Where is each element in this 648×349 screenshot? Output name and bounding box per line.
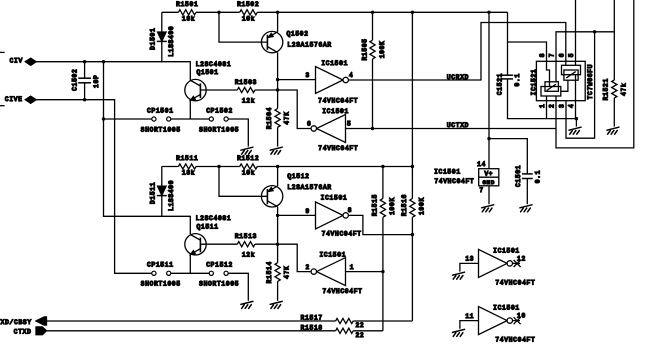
wire R1505 bottom lead — [372, 59, 374, 129]
svg-text:CP1512: CP1512 — [206, 262, 233, 269]
wire CIVE line down to CP1511 row — [36, 100, 152, 274]
svg-text:L2SA1576AR: L2SA1576AR — [287, 41, 332, 48]
svg-text:6: 6 — [307, 121, 311, 128]
svg-text:R1518: R1518 — [301, 325, 323, 332]
svg-text:0.1: 0.1 — [514, 73, 521, 86]
svg-text:IC1521: IC1521 — [531, 69, 538, 96]
svg-text:R1503: R1503 — [235, 79, 257, 86]
svg-text:IC1501: IC1501 — [493, 247, 520, 254]
jumper pad CP1501 left — [152, 117, 156, 121]
ground R1514 — [270, 301, 282, 308]
jumper pad CP1501 right — [167, 117, 171, 121]
svg-text:47K: 47K — [283, 111, 290, 124]
svg-text:100K: 100K — [389, 197, 396, 215]
junction top rail / R1505 — [371, 11, 374, 14]
wire IC1521 internal pin6 — [565, 61, 567, 65]
wire ground stem pin4 — [575, 119, 577, 127]
svg-text:L1SS400: L1SS400 — [168, 26, 175, 57]
svg-text:R1513: R1513 — [235, 233, 257, 240]
wire Q1511 base to R1513 — [200, 243, 237, 245]
svg-text:R1501: R1501 — [176, 1, 198, 8]
wire IC1521 internal switch2 to switch1 — [561, 80, 568, 91]
wire gate3 output route to R1516 bottom — [348, 215, 412, 234]
IC IC1521 box — [536, 61, 585, 100]
resistor R1512 — [240, 164, 258, 169]
wire gate5 output stub — [513, 262, 521, 264]
IC1501 power symbol V+/GND box — [479, 169, 499, 186]
junction C1502 bottom on CIVE — [83, 98, 86, 101]
wire Q1501 base to R1503 — [200, 89, 237, 91]
svg-text:4: 4 — [568, 104, 575, 108]
svg-text:CP1502: CP1502 — [206, 107, 233, 114]
wire gate5 input from ground — [460, 263, 479, 271]
wire IC1521 internal pin8 to switch1 — [547, 61, 550, 86]
wire ch2 rail seg1 — [162, 166, 179, 168]
resistor R1516 — [410, 199, 415, 218]
wire Q1501 emitter wire — [189, 100, 191, 119]
svg-text:4: 4 — [349, 72, 353, 79]
svg-text:14: 14 — [477, 161, 486, 168]
wire C1521 top lead — [507, 12, 509, 75]
svg-text:SHORT1005: SHORT1005 — [199, 281, 239, 288]
svg-text:IC1501: IC1501 — [434, 169, 461, 176]
wire R1514 to ground — [277, 282, 279, 301]
svg-text:74VHC04FT: 74VHC04FT — [318, 145, 358, 152]
wire R1515 top lead — [382, 167, 384, 199]
node CTXD arrow — [36, 327, 47, 335]
wire pin5 stub to top edge — [575, 0, 577, 61]
svg-text:1: 1 — [539, 104, 546, 108]
junction ch2 rail / R1516 — [411, 165, 414, 168]
wire pin8 route from C1521 column — [508, 42, 547, 61]
junction node R1513/R1514 — [276, 243, 279, 246]
svg-text:CIVE: CIVE — [5, 96, 23, 103]
inverter bubble gate6 output — [507, 318, 512, 323]
svg-text:R1516: R1516 — [401, 194, 408, 216]
wire CP2 row to ground — [228, 273, 248, 301]
svg-text:TC7W66FU: TC7W66FU — [587, 64, 594, 100]
svg-text:TXD/CBSY: TXD/CBSY — [0, 319, 32, 326]
svg-text:UCTXD: UCTXD — [447, 122, 469, 129]
junction C1502 top on CIV — [83, 60, 86, 63]
resistor R1505 — [370, 40, 375, 59]
inverter bubble gate3 output — [343, 213, 348, 218]
svg-text:6: 6 — [559, 53, 566, 57]
jumper pad CP1512 right — [224, 271, 228, 275]
resistor R1515 — [380, 199, 385, 218]
wire UCTXD route to IC1521 pin2 — [346, 128, 557, 130]
svg-text:R1521: R1521 — [603, 78, 610, 100]
ground gate5 input — [453, 272, 465, 279]
svg-text:D1511: D1511 — [149, 182, 156, 204]
wire pin2 route to top edge — [556, 0, 634, 148]
svg-text:IC1501: IC1501 — [493, 305, 520, 312]
svg-text:R1515: R1515 — [371, 194, 378, 216]
wire R1503 to gate2 output bubble — [255, 90, 311, 129]
inverter bubble gate1 output — [343, 77, 348, 82]
junction ch2 rail / Q1512 emitter — [276, 165, 279, 168]
wire Q1512 emitter wire — [277, 167, 279, 187]
capacitor C1521 — [502, 75, 513, 79]
junction node pin9 branch — [276, 214, 279, 217]
svg-text:R1511: R1511 — [176, 155, 198, 162]
wire gate4 input wire from R1515 column — [346, 271, 383, 273]
svg-text:R1505: R1505 — [362, 38, 369, 60]
svg-text:22: 22 — [355, 332, 364, 339]
wire D1511 cathode lead — [161, 196, 163, 217]
svg-text:2: 2 — [549, 104, 556, 108]
wire IC1521 internal pin4 — [575, 75, 577, 101]
svg-text:R1514: R1514 — [266, 261, 273, 283]
resistor R1513 — [237, 242, 255, 247]
junction branch on CIV — [102, 60, 105, 63]
svg-text:8: 8 — [539, 53, 546, 57]
svg-text:10P: 10P — [93, 75, 100, 88]
svg-text:CTXD: CTXD — [14, 329, 32, 336]
svg-text:D1501: D1501 — [149, 28, 156, 50]
inverter bubble gate2 output — [311, 126, 316, 131]
svg-text:Q1501: Q1501 — [196, 69, 218, 76]
wire R1518 to R1515 column — [353, 330, 383, 332]
svg-text:C1501: C1501 — [515, 165, 522, 187]
svg-text:74VHC04FT: 74VHC04FT — [495, 337, 535, 344]
svg-text:IC1501: IC1501 — [321, 194, 348, 201]
wire gate3 input wire — [278, 214, 316, 216]
wire CP row seg2 — [171, 118, 209, 120]
ground CP1512 — [241, 301, 253, 308]
resistor R1517 — [336, 318, 354, 323]
svg-text:10k: 10k — [242, 170, 255, 177]
resistor R1511 — [178, 164, 196, 169]
resistor R1501 — [178, 10, 196, 15]
svg-text:SHORT1005: SHORT1005 — [199, 126, 239, 133]
wire D1511 anode lead — [161, 167, 163, 187]
svg-text:SHORT1005: SHORT1005 — [141, 126, 181, 133]
svg-text:10k: 10k — [242, 15, 255, 22]
wire top rail seg3 — [257, 11, 507, 13]
svg-text:100K: 100K — [418, 197, 425, 215]
svg-text:11: 11 — [465, 313, 474, 320]
wire power box GND lead — [488, 186, 490, 204]
diode D1511 — [157, 186, 167, 195]
resistor R1514 — [275, 263, 280, 282]
svg-text:7: 7 — [479, 187, 483, 194]
svg-text:22: 22 — [355, 322, 364, 329]
wire IC1521 internal pin1 — [546, 96, 548, 101]
svg-text:100K: 100K — [379, 40, 386, 58]
wire gate1 input wire — [278, 79, 316, 81]
resistor R1518 — [336, 328, 354, 333]
svg-text:C1502: C1502 — [71, 69, 78, 91]
junction CIV branch to CP row — [102, 117, 105, 120]
ground gate6 input — [453, 329, 465, 336]
wire CIV branch down to ch2 node — [104, 62, 191, 235]
wire gate6 input from ground — [460, 321, 479, 329]
resistor R1503 — [237, 87, 255, 92]
ground C1501 — [520, 205, 532, 212]
wire C1501 ground lead — [526, 179, 528, 205]
wire TXD/CBSY line — [47, 320, 336, 322]
wire C1502 top lead — [84, 62, 86, 78]
svg-text:L2SA1576AR: L2SA1576AR — [287, 184, 332, 191]
wire IC1521 internal pin7 to switch1 — [555, 61, 557, 82]
svg-text:74VHC04FT: 74VHC04FT — [434, 178, 474, 185]
no-connect X gate5 — [514, 260, 521, 267]
resistor R1504 — [275, 109, 280, 128]
transistor Q1511 (NPN) — [185, 234, 206, 255]
wire CTXD line — [47, 330, 336, 332]
svg-text:C1521: C1521 — [497, 73, 504, 95]
diode D1501 — [157, 32, 167, 41]
svg-text:V+: V+ — [484, 170, 493, 177]
svg-text:12k: 12k — [242, 97, 255, 104]
ground R1504 — [270, 147, 282, 154]
wire IC1521 internal pin5 — [575, 61, 577, 65]
wire R1505 top lead — [372, 12, 374, 40]
svg-text:2: 2 — [305, 264, 309, 271]
svg-text:18k: 18k — [182, 15, 195, 22]
node TXD/CBSY arrow — [36, 317, 47, 325]
transistor Q1501 (NPN) — [185, 79, 206, 100]
svg-text:Q1502: Q1502 — [286, 31, 308, 38]
wire R1504 to ground — [277, 127, 279, 146]
junction top rail / V+ column — [487, 11, 490, 14]
svg-text:47K: 47K — [283, 266, 290, 279]
capacitor C1502 — [78, 78, 91, 83]
svg-text:5: 5 — [347, 121, 351, 128]
node CIV flag — [25, 58, 36, 65]
analog switch 1 inside IC1521 — [541, 82, 561, 96]
wire UCRXD route to IC1521 pin6 — [348, 23, 565, 81]
transistor Q1502 (PNP) — [261, 31, 282, 52]
wire C1521 to ground line — [508, 79, 577, 119]
svg-text:47k: 47k — [620, 83, 627, 96]
junction node pin3 branch — [276, 78, 279, 81]
inverter bubble gate5 output — [507, 261, 512, 266]
inverter bubble gate4 output — [311, 269, 316, 274]
jumper pad CP1502 right — [224, 117, 228, 121]
wire branch to C1501 — [489, 139, 527, 174]
wire Q1512 base wire — [219, 167, 267, 197]
jumper pad CP1511 left — [152, 271, 156, 275]
svg-text:L1SS400: L1SS400 — [168, 180, 175, 211]
wire V+ column from top rail — [488, 12, 490, 168]
wire pin4 stub to ground line — [575, 101, 577, 119]
inverter gate IC1501 pins 11-10 — [479, 307, 508, 335]
wire D1501 anode lead — [161, 12, 163, 32]
svg-text:13: 13 — [465, 256, 474, 263]
svg-text:CP1511: CP1511 — [147, 262, 174, 269]
wire Q1511 emitter wire — [189, 255, 191, 274]
svg-text:CP1501: CP1501 — [147, 107, 174, 114]
junction top rail / Q1502 base — [217, 11, 220, 14]
svg-text:L2SC4081: L2SC4081 — [196, 215, 232, 222]
junction R1505 bottom on UCTXD — [371, 127, 374, 130]
wire CP row to ground — [228, 119, 248, 147]
jumper pad CP1502 left — [209, 117, 213, 121]
wire Q1502 collector column — [277, 53, 279, 109]
svg-text:R1512: R1512 — [237, 155, 259, 162]
svg-text:3: 3 — [559, 104, 566, 108]
wire R1516 column down to R1517 line — [411, 217, 413, 321]
svg-text:IC1501: IC1501 — [321, 60, 348, 67]
inverter gate IC1501 pins 2-1 — [317, 258, 346, 286]
analog switch 2 inside IC1521 — [562, 65, 581, 80]
ground R1521 — [607, 127, 619, 134]
wire Q1502 emitter wire — [277, 12, 279, 32]
svg-text:74VHC04FT: 74VHC04FT — [323, 288, 363, 295]
ground CP1502 — [241, 147, 253, 154]
op-amp/inverter gate IC1501 pins 3-4 — [316, 67, 344, 94]
no-connect X gate6 — [514, 317, 521, 324]
svg-text:18k: 18k — [182, 170, 195, 177]
svg-text:R1517: R1517 — [301, 315, 323, 322]
jumper pad CP1512 left — [209, 271, 213, 275]
svg-text:9: 9 — [305, 208, 309, 215]
wire Q1512 collector column — [277, 207, 279, 263]
inverter gate IC1501 pins 13-12 — [479, 249, 508, 277]
junction ch2 rail / R1515 — [381, 165, 384, 168]
svg-text:Q1512: Q1512 — [287, 173, 309, 180]
svg-text:0.1: 0.1 — [535, 170, 542, 183]
wire ch2 rail seg2 — [196, 166, 240, 168]
wire Q1502 base wire — [219, 12, 267, 42]
wire D1501 cathode lead — [161, 41, 163, 61]
wire pin7 route to R1521 — [556, 32, 614, 62]
ground IC1501 GND — [482, 205, 494, 212]
wire R1516 column from top rail — [411, 12, 413, 198]
node CIVE flag — [25, 96, 36, 103]
jumper pad CP1511 right — [167, 271, 171, 275]
svg-text:74VHC04FT: 74VHC04FT — [318, 98, 358, 105]
junction V+ / C1501 branch — [487, 137, 490, 140]
wire R1521 ground lead — [613, 98, 615, 127]
wire gate6 output stub — [513, 320, 521, 322]
junction top rail / R1516 — [411, 11, 414, 14]
svg-text:Q1511: Q1511 — [196, 223, 218, 230]
svg-text:74VHC04FT: 74VHC04FT — [495, 279, 535, 286]
junction top rail / Q1502 emitter — [276, 11, 279, 14]
wire R1517 to R1516 column — [353, 320, 412, 322]
wire CP2 row seg2 — [171, 272, 209, 274]
svg-text:3: 3 — [305, 72, 309, 79]
svg-text:12k: 12k — [242, 252, 255, 259]
wire CP row seg1 — [104, 118, 152, 120]
junction gate3 out / R1516 — [411, 233, 414, 236]
svg-text:R1504: R1504 — [266, 107, 273, 129]
inverter gate IC1501 pins 9-8 — [316, 202, 344, 229]
wire IC1521 internal pin2 — [555, 96, 557, 101]
wire pin1 stub to ground line — [546, 101, 548, 119]
svg-text:IC1501: IC1501 — [322, 108, 349, 115]
svg-text:UCRXD: UCRXD — [447, 74, 469, 81]
junction ch2 rail / Q1512 base — [217, 165, 220, 168]
svg-text:5: 5 — [568, 53, 575, 57]
ground IC1521 pin4 — [569, 127, 581, 134]
resistor R1521 — [612, 80, 617, 98]
wire connector edge tick top — [0, 51, 5, 53]
wire ch2 rail seg3 — [257, 166, 412, 168]
resistor R1502 — [240, 10, 258, 15]
wire top rail seg2 — [196, 11, 240, 13]
wire top rail seg1 — [162, 11, 179, 13]
wire R1513 to gate4 output bubble — [255, 244, 311, 271]
svg-text:CIV: CIV — [10, 57, 23, 64]
transistor Q1512 (PNP) — [261, 186, 282, 207]
wire pin3 route — [566, 32, 595, 138]
wire R1521 top lead from top edge — [613, 0, 615, 80]
svg-text:R1502: R1502 — [237, 1, 259, 8]
wire R1515 column down to R1518 line — [382, 217, 384, 330]
svg-text:8: 8 — [348, 207, 352, 214]
inverter gate IC1501 pins 5-6 — [317, 115, 346, 143]
wire C1502 bottom lead — [84, 83, 86, 100]
svg-text:7: 7 — [549, 53, 556, 57]
capacitor C1501 — [522, 174, 533, 179]
svg-text:1: 1 — [350, 264, 354, 271]
junction gate4 in / R1515 — [381, 270, 384, 273]
svg-text:IC1501: IC1501 — [319, 251, 346, 258]
junction node R1503/R1504 — [276, 88, 279, 91]
wire CIV line to Q1501 collector — [36, 62, 190, 81]
svg-text:GND: GND — [482, 179, 495, 186]
svg-text:L2SC4081: L2SC4081 — [196, 61, 232, 68]
svg-text:SHORT1005: SHORT1005 — [141, 281, 181, 288]
junction pin7 line / pin3 stub — [593, 30, 596, 33]
svg-text:74VHC04FT: 74VHC04FT — [322, 231, 362, 238]
junction pin4 ground node — [575, 117, 578, 120]
wire connector edge tick bottom — [0, 105, 5, 107]
